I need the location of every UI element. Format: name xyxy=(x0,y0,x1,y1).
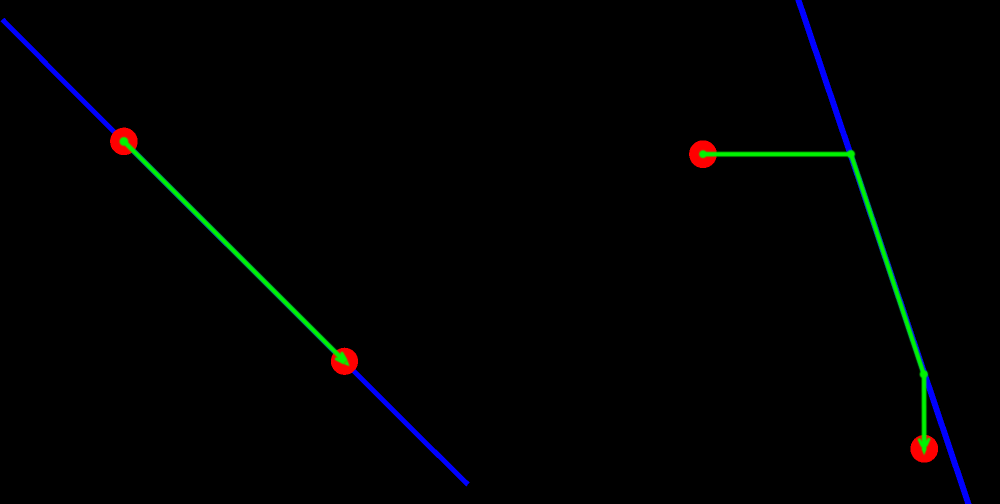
red point A xyxy=(110,128,138,156)
diagonal green segment J1 to J2 along the line xyxy=(851,154,924,374)
green arrowhead tip at B xyxy=(344,361,350,367)
horizontal green segment P1 to J1 xyxy=(703,152,851,157)
green junction dot J1 xyxy=(847,150,855,158)
left blue line through points A and B xyxy=(3,20,469,485)
green arrowhead tip at P2 xyxy=(922,449,927,455)
green arrow shaft A to B xyxy=(124,141,345,362)
green dot at P1 xyxy=(699,150,707,158)
green arrowhead barbs at B xyxy=(336,353,346,362)
green junction dot J2 xyxy=(920,370,928,378)
right blue line xyxy=(798,0,970,504)
red point P1 xyxy=(689,140,717,168)
red point P2 xyxy=(910,435,938,463)
green start dot at A xyxy=(120,137,129,146)
green arrowhead barbs at P2 xyxy=(919,439,929,445)
red point B xyxy=(331,348,358,375)
green vertical arrow shaft J2 to P2 xyxy=(922,374,927,450)
